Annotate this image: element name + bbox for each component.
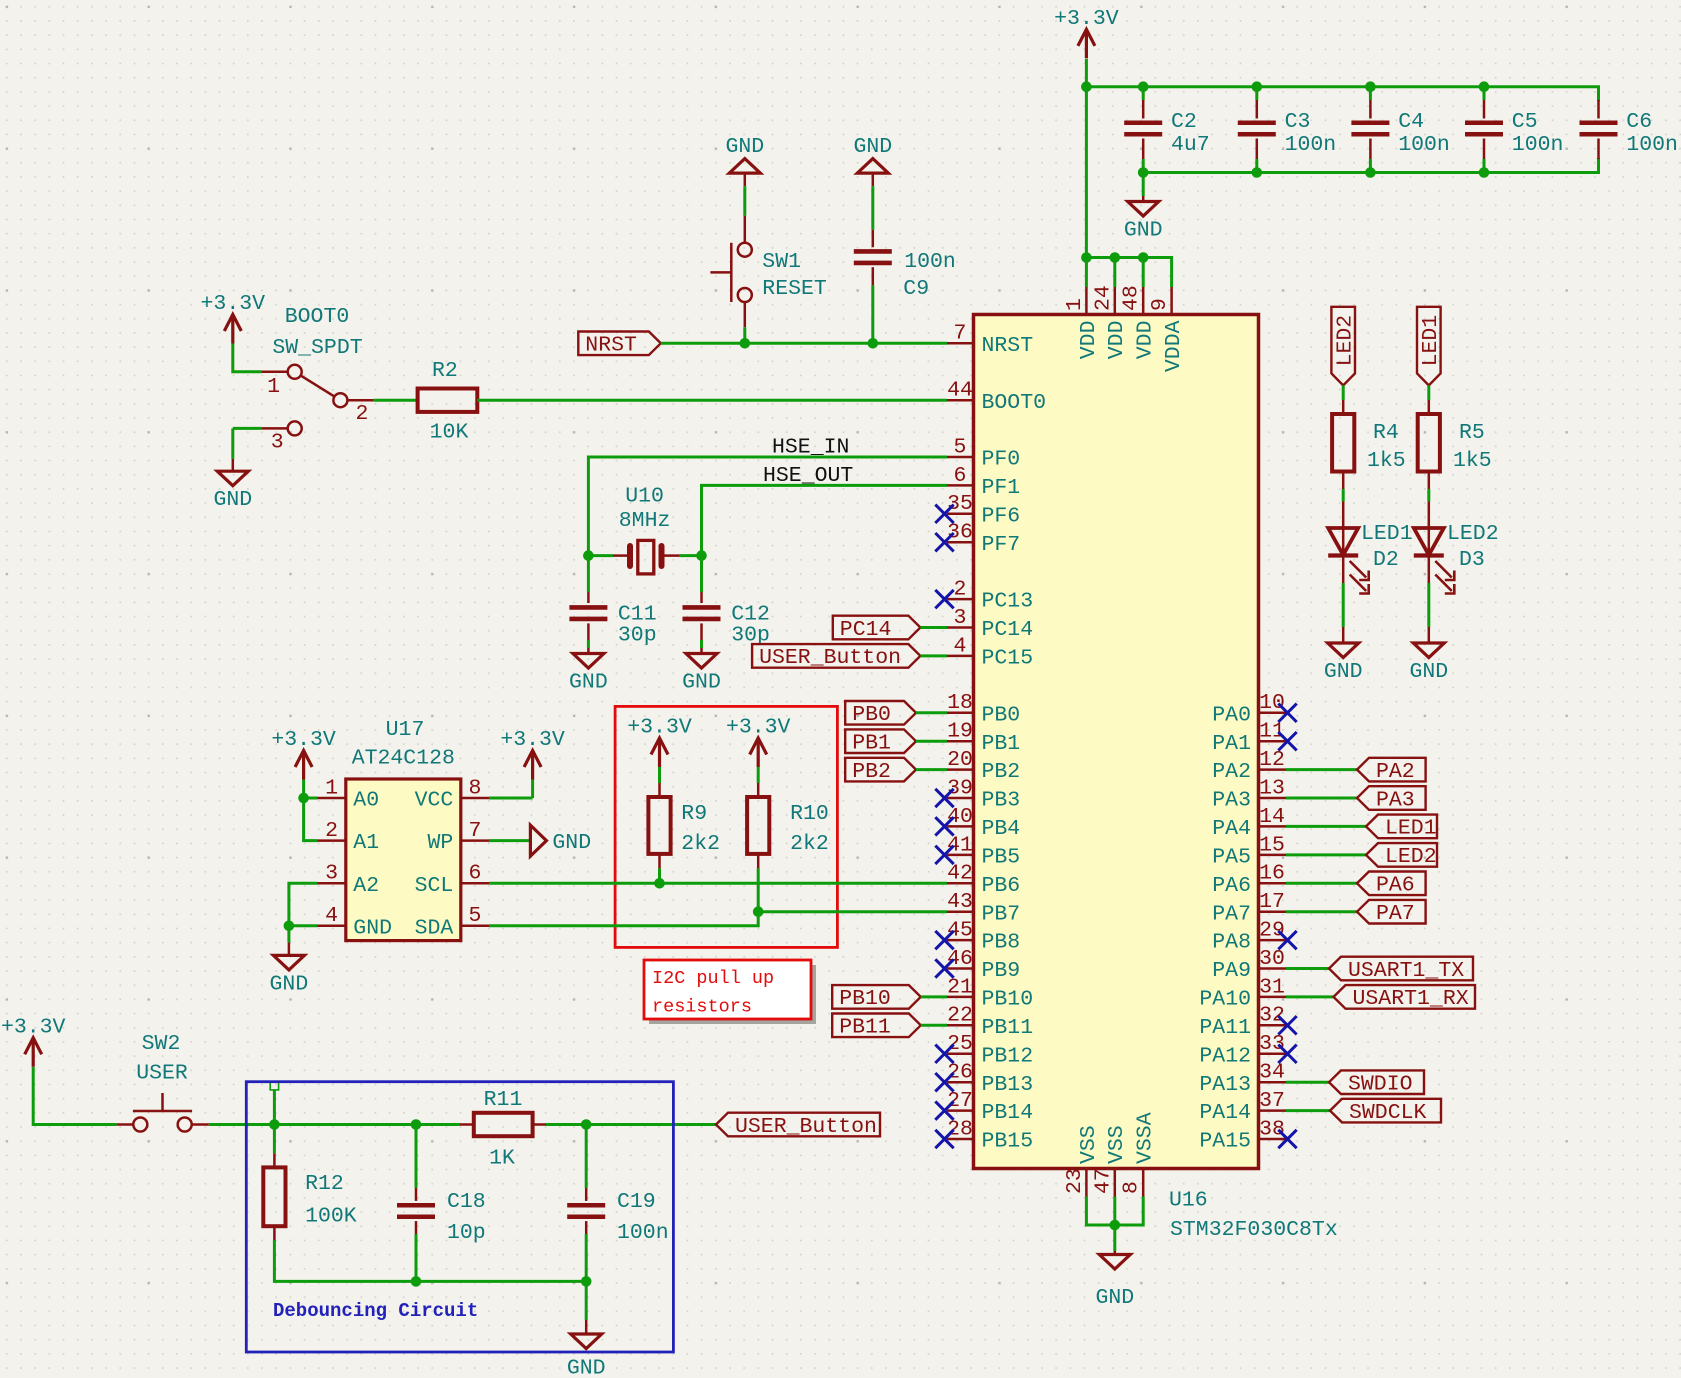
svg-text:+3.3V: +3.3V bbox=[500, 728, 565, 752]
junction C19 top bbox=[581, 1119, 592, 1130]
MCU U16 STM32F030C8Tx body bbox=[974, 315, 1259, 1169]
svg-text:PB4: PB4 bbox=[982, 817, 1021, 841]
wire C19 bottom bbox=[585, 1234, 588, 1281]
push button SW1 RESET bbox=[710, 243, 751, 302]
wire PB0 bbox=[916, 711, 947, 714]
resistor R4 1k5 bbox=[1332, 414, 1354, 472]
wire VDD drop bbox=[1142, 258, 1145, 288]
U16 pin 15 PA5 bbox=[1259, 854, 1287, 857]
wire C9 to NRST net bbox=[871, 285, 874, 343]
svg-text:100n: 100n bbox=[1285, 133, 1337, 157]
svg-text:PB0: PB0 bbox=[982, 703, 1021, 727]
dangling wire end marker bbox=[270, 1082, 278, 1090]
wire USART1_RX bbox=[1286, 995, 1334, 998]
svg-text:40: 40 bbox=[947, 805, 973, 829]
resistor R9 2k2 bbox=[648, 797, 670, 854]
svg-text:PC14: PC14 bbox=[982, 618, 1034, 642]
U16 pin 32 PA11 bbox=[1259, 1024, 1287, 1027]
no-connect (right pin y=1025.3) bbox=[1278, 1016, 1296, 1034]
wire PC14 bbox=[920, 626, 947, 629]
svg-text:PA13: PA13 bbox=[1199, 1073, 1251, 1097]
svg-text:+3.3V: +3.3V bbox=[1054, 7, 1119, 31]
no-connect (left pin y=599.1) bbox=[935, 590, 953, 608]
wire pin 3 down bbox=[231, 428, 234, 459]
svg-text:21: 21 bbox=[947, 975, 973, 999]
svg-text:USER_Button: USER_Button bbox=[735, 1115, 877, 1139]
U17 pin 3 A2 bbox=[318, 882, 346, 885]
U16 pin 11 PA1 bbox=[1259, 740, 1287, 743]
no-connect (left pin y=1110.6) bbox=[935, 1101, 953, 1119]
power +3.3V (U17 VCC) bbox=[524, 751, 541, 780]
wire NRST bbox=[661, 342, 947, 345]
wire U17 GND pin bbox=[289, 924, 318, 927]
wire C3 top bbox=[1255, 87, 1258, 100]
svg-text:D3: D3 bbox=[1459, 548, 1485, 572]
wire USER_Button to PC15 bbox=[920, 654, 947, 657]
svg-text:PF7: PF7 bbox=[982, 533, 1021, 557]
wire to R12 bbox=[273, 1125, 276, 1154]
U16 pin 9 VDDA bbox=[1170, 287, 1173, 315]
svg-text:10p: 10p bbox=[447, 1221, 486, 1245]
svg-text:RESET: RESET bbox=[762, 277, 827, 301]
svg-text:PB11: PB11 bbox=[982, 1016, 1034, 1040]
junction C2 top bbox=[1138, 81, 1149, 92]
global label LED2 bbox=[1331, 307, 1355, 386]
global label PB0 bbox=[845, 701, 916, 725]
wire +3.3V to R10 bbox=[757, 767, 760, 783]
svg-text:30p: 30p bbox=[618, 623, 657, 647]
svg-text:2: 2 bbox=[356, 402, 369, 426]
U16 pin 29 PA8 bbox=[1259, 939, 1287, 942]
svg-text:16: 16 bbox=[1259, 862, 1285, 886]
svg-text:PB13: PB13 bbox=[982, 1073, 1034, 1097]
svg-text:PB8: PB8 bbox=[982, 931, 1021, 955]
svg-text:R12: R12 bbox=[305, 1172, 344, 1196]
svg-text:26: 26 bbox=[947, 1061, 973, 1085]
U16 pin 40 PB4 bbox=[947, 825, 974, 828]
wire PB2 bbox=[916, 768, 947, 771]
ground (U17) bbox=[273, 955, 304, 970]
junction C4 bottom bbox=[1365, 167, 1376, 178]
svg-text:LED2: LED2 bbox=[1334, 315, 1358, 367]
wire C5 bottom bbox=[1483, 159, 1486, 173]
capacitor C4 plates bbox=[1351, 120, 1389, 125]
U16 pin 42 PB6 bbox=[947, 882, 974, 885]
svg-text:GND: GND bbox=[1095, 1286, 1134, 1310]
global label PB10 bbox=[832, 985, 921, 1009]
svg-text:9: 9 bbox=[1148, 298, 1172, 311]
global label PA6 bbox=[1357, 872, 1426, 896]
global label SWDIO bbox=[1329, 1070, 1424, 1094]
text box I2C pull up resistors bbox=[649, 965, 816, 1024]
svg-text:C2: C2 bbox=[1171, 110, 1197, 134]
wire HSE_OUT bbox=[702, 485, 948, 555]
svg-text:NRST: NRST bbox=[585, 334, 637, 358]
svg-text:22: 22 bbox=[947, 1004, 973, 1028]
svg-text:PB11: PB11 bbox=[839, 1016, 891, 1040]
svg-text:PA0: PA0 bbox=[1212, 703, 1251, 727]
junction R10/SDA bbox=[753, 906, 764, 917]
svg-text:3: 3 bbox=[954, 606, 967, 630]
svg-text:PA15: PA15 bbox=[1199, 1130, 1251, 1154]
junction C4 top bbox=[1365, 81, 1376, 92]
global label LED2 bbox=[1366, 843, 1437, 867]
resistor R5 1k5 bbox=[1418, 414, 1440, 472]
svg-text:GND: GND bbox=[213, 488, 252, 512]
svg-text:100n: 100n bbox=[1398, 133, 1450, 157]
resistor R11 1K bbox=[474, 1113, 533, 1136]
capacitor C6 bbox=[1597, 100, 1600, 119]
svg-text:A1: A1 bbox=[353, 831, 379, 855]
wire PA3 bbox=[1286, 797, 1357, 800]
wire R9 to SCL bbox=[658, 868, 661, 883]
wire +3.3V to A0 bbox=[304, 780, 318, 799]
ground (U16 VSS) bbox=[1099, 1255, 1130, 1270]
junction crystal left bbox=[583, 550, 594, 561]
svg-text:SDA: SDA bbox=[415, 916, 454, 940]
power +3.3V (BOOT0 switch) bbox=[224, 315, 241, 344]
wire switch pin 3 bbox=[233, 427, 262, 430]
svg-text:47: 47 bbox=[1091, 1168, 1115, 1194]
svg-text:12: 12 bbox=[1259, 748, 1285, 772]
global label PA7 bbox=[1357, 900, 1426, 924]
global label NRST bbox=[578, 332, 661, 356]
svg-text:PB14: PB14 bbox=[982, 1101, 1034, 1125]
power +3.3V (SW2) bbox=[25, 1038, 42, 1067]
svg-text:resistors: resistors bbox=[652, 997, 752, 1018]
capacitor C3 plates bbox=[1238, 120, 1276, 125]
wire VSS middle to GND bbox=[1113, 1197, 1116, 1252]
svg-text:24: 24 bbox=[1091, 285, 1115, 311]
ground (C12) bbox=[686, 654, 717, 669]
svg-text:R9: R9 bbox=[681, 802, 707, 826]
no-connect (left pin y=1053.8) bbox=[935, 1045, 953, 1063]
U16 pin 3 PC14 bbox=[947, 626, 974, 629]
svg-text:LED1: LED1 bbox=[1419, 315, 1443, 367]
svg-text:6: 6 bbox=[468, 862, 481, 886]
svg-text:R5: R5 bbox=[1459, 421, 1485, 445]
annotation box Debouncing Circuit bbox=[246, 1082, 673, 1352]
svg-text:C19: C19 bbox=[617, 1190, 656, 1214]
svg-text:D2: D2 bbox=[1373, 548, 1399, 572]
svg-text:PA4: PA4 bbox=[1212, 817, 1251, 841]
svg-text:I2C pull up: I2C pull up bbox=[652, 968, 774, 989]
svg-text:37: 37 bbox=[1259, 1089, 1285, 1113]
svg-text:AT24C128: AT24C128 bbox=[352, 746, 455, 770]
U16 pin 4 PC15 bbox=[947, 655, 974, 658]
svg-text:2k2: 2k2 bbox=[681, 832, 720, 856]
wire +3.3V to R9 bbox=[658, 767, 661, 783]
ground (D2) bbox=[1328, 643, 1359, 658]
svg-text:39: 39 bbox=[947, 776, 973, 800]
wire SCL net bbox=[489, 882, 947, 885]
svg-text:VCC: VCC bbox=[415, 789, 454, 813]
svg-text:100n: 100n bbox=[1626, 133, 1678, 157]
svg-text:PA2: PA2 bbox=[1376, 760, 1415, 784]
wire WP to GND bbox=[489, 839, 530, 842]
wire VDD drop bbox=[1085, 258, 1088, 288]
svg-text:C5: C5 bbox=[1512, 110, 1538, 134]
junction C9/NRST bbox=[868, 338, 879, 349]
U16 pin 28 PB15 bbox=[947, 1138, 974, 1141]
resistor R2 bbox=[418, 389, 478, 412]
EEPROM U17 AT24C128 body bbox=[346, 779, 461, 941]
svg-text:PF0: PF0 bbox=[982, 448, 1021, 472]
svg-text:46: 46 bbox=[947, 947, 973, 971]
svg-text:SW1: SW1 bbox=[762, 250, 801, 274]
power +3.3V (R10) bbox=[750, 738, 767, 767]
svg-text:U17: U17 bbox=[386, 718, 425, 742]
svg-text:PB5: PB5 bbox=[982, 846, 1021, 870]
ground (C11) bbox=[573, 654, 604, 669]
svg-text:44: 44 bbox=[947, 379, 973, 403]
svg-text:PB0: PB0 bbox=[852, 703, 891, 727]
ground (SW1) bbox=[729, 159, 760, 174]
global label LED1 bbox=[1417, 307, 1441, 386]
U16 pin 7 NRST bbox=[947, 342, 974, 345]
svg-text:13: 13 bbox=[1259, 776, 1285, 800]
svg-text:4u7: 4u7 bbox=[1171, 133, 1210, 157]
svg-text:8: 8 bbox=[468, 776, 481, 800]
svg-text:8MHz: 8MHz bbox=[619, 509, 671, 533]
power +3.3V rail bbox=[1078, 29, 1095, 58]
global label PB1 bbox=[845, 729, 916, 753]
svg-text:PA10: PA10 bbox=[1199, 988, 1251, 1012]
svg-text:GND: GND bbox=[1124, 219, 1163, 243]
capacitor C18 plates bbox=[397, 1203, 435, 1208]
wire A0 to A1 bbox=[304, 798, 318, 841]
svg-text:R4: R4 bbox=[1373, 421, 1399, 445]
svg-text:PB10: PB10 bbox=[839, 987, 891, 1011]
svg-text:31: 31 bbox=[1259, 975, 1285, 999]
svg-text:28: 28 bbox=[947, 1117, 973, 1141]
svg-text:PB2: PB2 bbox=[852, 760, 891, 784]
svg-text:SW_SPDT: SW_SPDT bbox=[272, 336, 362, 360]
junction VSS bbox=[1110, 1220, 1121, 1231]
U16 pin 2 PC13 bbox=[947, 598, 974, 601]
svg-text:27: 27 bbox=[947, 1089, 973, 1113]
U16 pin 18 PB0 bbox=[947, 712, 974, 715]
wire +3.3V to rail bbox=[1085, 59, 1088, 87]
wire to C18 bbox=[415, 1125, 418, 1189]
svg-text:PA9: PA9 bbox=[1212, 959, 1251, 983]
svg-text:2: 2 bbox=[954, 578, 967, 602]
svg-text:+3.3V: +3.3V bbox=[271, 728, 336, 752]
svg-text:GND: GND bbox=[1409, 660, 1448, 684]
wire R4 to D2 bbox=[1342, 489, 1345, 502]
capacitor C11 plates bbox=[569, 605, 607, 610]
svg-text:VSSA: VSSA bbox=[1134, 1112, 1158, 1164]
no-connect (left pin y=940.1) bbox=[935, 931, 953, 949]
U16 pin 30 PA9 bbox=[1259, 967, 1287, 970]
svg-text:BOOT0: BOOT0 bbox=[982, 391, 1047, 415]
svg-text:SWDIO: SWDIO bbox=[1348, 1073, 1413, 1097]
svg-text:PB1: PB1 bbox=[852, 732, 891, 756]
svg-text:1: 1 bbox=[325, 776, 338, 800]
svg-text:100K: 100K bbox=[305, 1205, 357, 1229]
wire capacitor bottom rail bbox=[1143, 158, 1598, 173]
svg-text:VDD: VDD bbox=[1077, 321, 1101, 360]
svg-text:R2: R2 bbox=[432, 359, 458, 383]
svg-text:VDD: VDD bbox=[1134, 321, 1158, 360]
junction bbox=[1081, 252, 1092, 263]
no-connect (left pin y=854.9) bbox=[935, 846, 953, 864]
wire to ground bbox=[287, 926, 290, 943]
svg-text:SCL: SCL bbox=[415, 874, 454, 898]
svg-text:8: 8 bbox=[1120, 1181, 1144, 1194]
capacitor C12 plates bbox=[683, 605, 721, 610]
U16 pin 44 BOOT0 bbox=[947, 399, 974, 402]
junction C3 bottom bbox=[1252, 167, 1263, 178]
U16 pin 8 VSSA bbox=[1142, 1169, 1145, 1197]
LED D2 bbox=[1328, 528, 1358, 555]
svg-text:PA7: PA7 bbox=[1376, 902, 1415, 926]
svg-text:Debouncing Circuit: Debouncing Circuit bbox=[273, 1300, 478, 1322]
wire C5 top bbox=[1483, 87, 1486, 100]
U17 pin 8 VCC bbox=[461, 797, 489, 800]
junction bbox=[1110, 252, 1121, 263]
svg-text:U10: U10 bbox=[625, 485, 664, 509]
wire PB10 bbox=[921, 995, 947, 998]
global label USER_Button bbox=[716, 1113, 880, 1137]
svg-text:VDD: VDD bbox=[1105, 321, 1129, 360]
wire D2 to GND bbox=[1342, 583, 1345, 627]
U16 pin 5 PF0 bbox=[947, 456, 974, 459]
svg-text:R11: R11 bbox=[484, 1088, 523, 1112]
global label PA3 bbox=[1357, 786, 1426, 810]
svg-text:PA6: PA6 bbox=[1376, 874, 1415, 898]
no-connect (left pin y=1139) bbox=[935, 1130, 953, 1148]
wire GND to C9 bbox=[871, 186, 874, 230]
junction C2 bottom bbox=[1138, 167, 1149, 178]
global label USER_Button bbox=[752, 644, 920, 668]
svg-text:R10: R10 bbox=[790, 802, 829, 826]
svg-text:PA1: PA1 bbox=[1212, 732, 1251, 756]
wire C11 to GND bbox=[587, 640, 590, 648]
svg-text:29: 29 bbox=[1259, 919, 1285, 943]
no-connect (left pin y=968.5) bbox=[935, 959, 953, 977]
svg-text:14: 14 bbox=[1259, 805, 1285, 829]
wire C4 top bbox=[1369, 87, 1372, 100]
svg-text:LED2: LED2 bbox=[1385, 845, 1437, 869]
wire C2 to GND bbox=[1142, 173, 1145, 197]
U17 pin 6 SCL bbox=[461, 882, 489, 885]
wire C12 to GND bbox=[700, 640, 703, 648]
wire PB1 bbox=[916, 740, 947, 743]
ground (WP power pin) bbox=[530, 825, 546, 856]
svg-text:PB9: PB9 bbox=[982, 959, 1021, 983]
capacitor C2 plates bbox=[1124, 120, 1162, 125]
svg-text:PB6: PB6 bbox=[982, 874, 1021, 898]
wire to crystal left bbox=[588, 554, 613, 557]
U16 pin 33 PA12 bbox=[1259, 1053, 1287, 1056]
svg-text:LED2: LED2 bbox=[1447, 522, 1499, 546]
svg-text:5: 5 bbox=[468, 904, 481, 928]
global label USART1_RX bbox=[1334, 985, 1476, 1009]
no-connect (left pin y=798) bbox=[935, 789, 953, 807]
wire to C19 bbox=[585, 1125, 588, 1189]
svg-text:4: 4 bbox=[325, 904, 338, 928]
svg-text:C18: C18 bbox=[447, 1190, 486, 1214]
U16 pin 21 PB10 bbox=[947, 996, 974, 999]
wire LED2 bbox=[1286, 853, 1366, 856]
svg-text:10: 10 bbox=[1259, 691, 1285, 715]
svg-text:10K: 10K bbox=[430, 420, 469, 444]
wire R2 to BOOT0 pin bbox=[477, 399, 947, 402]
resistor R12 body bbox=[263, 1167, 285, 1226]
global label USART1_TX bbox=[1329, 957, 1473, 981]
junction A0 bbox=[298, 793, 309, 804]
junction crystal right bbox=[696, 550, 707, 561]
capacitor C19 plates bbox=[567, 1203, 605, 1208]
wire SWDCLK bbox=[1286, 1109, 1330, 1112]
svg-text:PF1: PF1 bbox=[982, 476, 1021, 500]
svg-text:SWDCLK: SWDCLK bbox=[1349, 1101, 1427, 1125]
svg-text:C4: C4 bbox=[1398, 110, 1424, 134]
wire PA7 bbox=[1286, 910, 1357, 913]
U16 pin 17 PA7 bbox=[1259, 910, 1287, 913]
svg-text:PA8: PA8 bbox=[1212, 931, 1251, 955]
U16 pin 46 PB9 bbox=[947, 967, 974, 970]
svg-text:23: 23 bbox=[1063, 1168, 1087, 1194]
svg-text:35: 35 bbox=[947, 492, 973, 516]
svg-text:PB3: PB3 bbox=[982, 789, 1021, 813]
svg-text:1K: 1K bbox=[489, 1147, 515, 1171]
svg-text:32: 32 bbox=[1259, 1004, 1285, 1028]
svg-text:6: 6 bbox=[954, 464, 967, 488]
svg-text:42: 42 bbox=[947, 862, 973, 886]
svg-text:25: 25 bbox=[947, 1032, 973, 1056]
svg-text:PA5: PA5 bbox=[1212, 846, 1251, 870]
wire R10 to SDA bbox=[757, 868, 760, 911]
junction R12 top bbox=[269, 1119, 280, 1130]
U16 pin 13 PA3 bbox=[1259, 797, 1287, 800]
wire HSE_IN bbox=[588, 457, 947, 556]
svg-text:USER: USER bbox=[136, 1062, 188, 1086]
U16 pin 48 VDD bbox=[1142, 287, 1145, 315]
svg-text:36: 36 bbox=[947, 521, 973, 545]
wire SW1 to NRST net bbox=[743, 327, 746, 343]
svg-text:17: 17 bbox=[1259, 890, 1285, 914]
svg-text:PB1: PB1 bbox=[982, 732, 1021, 756]
LED D3 bbox=[1414, 528, 1444, 555]
ground (debounce) bbox=[571, 1334, 602, 1349]
svg-text:2k2: 2k2 bbox=[790, 832, 829, 856]
svg-text:VSS: VSS bbox=[1105, 1125, 1129, 1164]
svg-text:PA11: PA11 bbox=[1199, 1016, 1251, 1040]
U16 pin 23 VSS bbox=[1085, 1169, 1088, 1197]
wire +3.3V to SW2 bbox=[33, 1067, 117, 1125]
svg-text:1: 1 bbox=[267, 375, 280, 399]
no-connect (right pin y=712.8) bbox=[1278, 704, 1296, 722]
wire LED1 label to R5 bbox=[1427, 385, 1430, 400]
svg-text:+3.3V: +3.3V bbox=[726, 716, 791, 740]
ground (BOOT0 switch) bbox=[217, 471, 248, 486]
global label PB11 bbox=[832, 1014, 921, 1038]
global label LED1 bbox=[1366, 815, 1437, 839]
svg-text:20: 20 bbox=[947, 748, 973, 772]
svg-text:PB2: PB2 bbox=[982, 760, 1021, 784]
svg-text:LED1: LED1 bbox=[1361, 522, 1413, 546]
svg-text:3: 3 bbox=[325, 862, 338, 886]
svg-text:34: 34 bbox=[1259, 1061, 1285, 1085]
svg-text:30: 30 bbox=[1259, 947, 1285, 971]
global label PB2 bbox=[845, 758, 916, 782]
svg-text:WP: WP bbox=[427, 831, 453, 855]
svg-text:VDDA: VDDA bbox=[1162, 320, 1186, 372]
wire SDA net bbox=[489, 912, 947, 926]
U16 pin 1 VDD bbox=[1085, 287, 1088, 315]
